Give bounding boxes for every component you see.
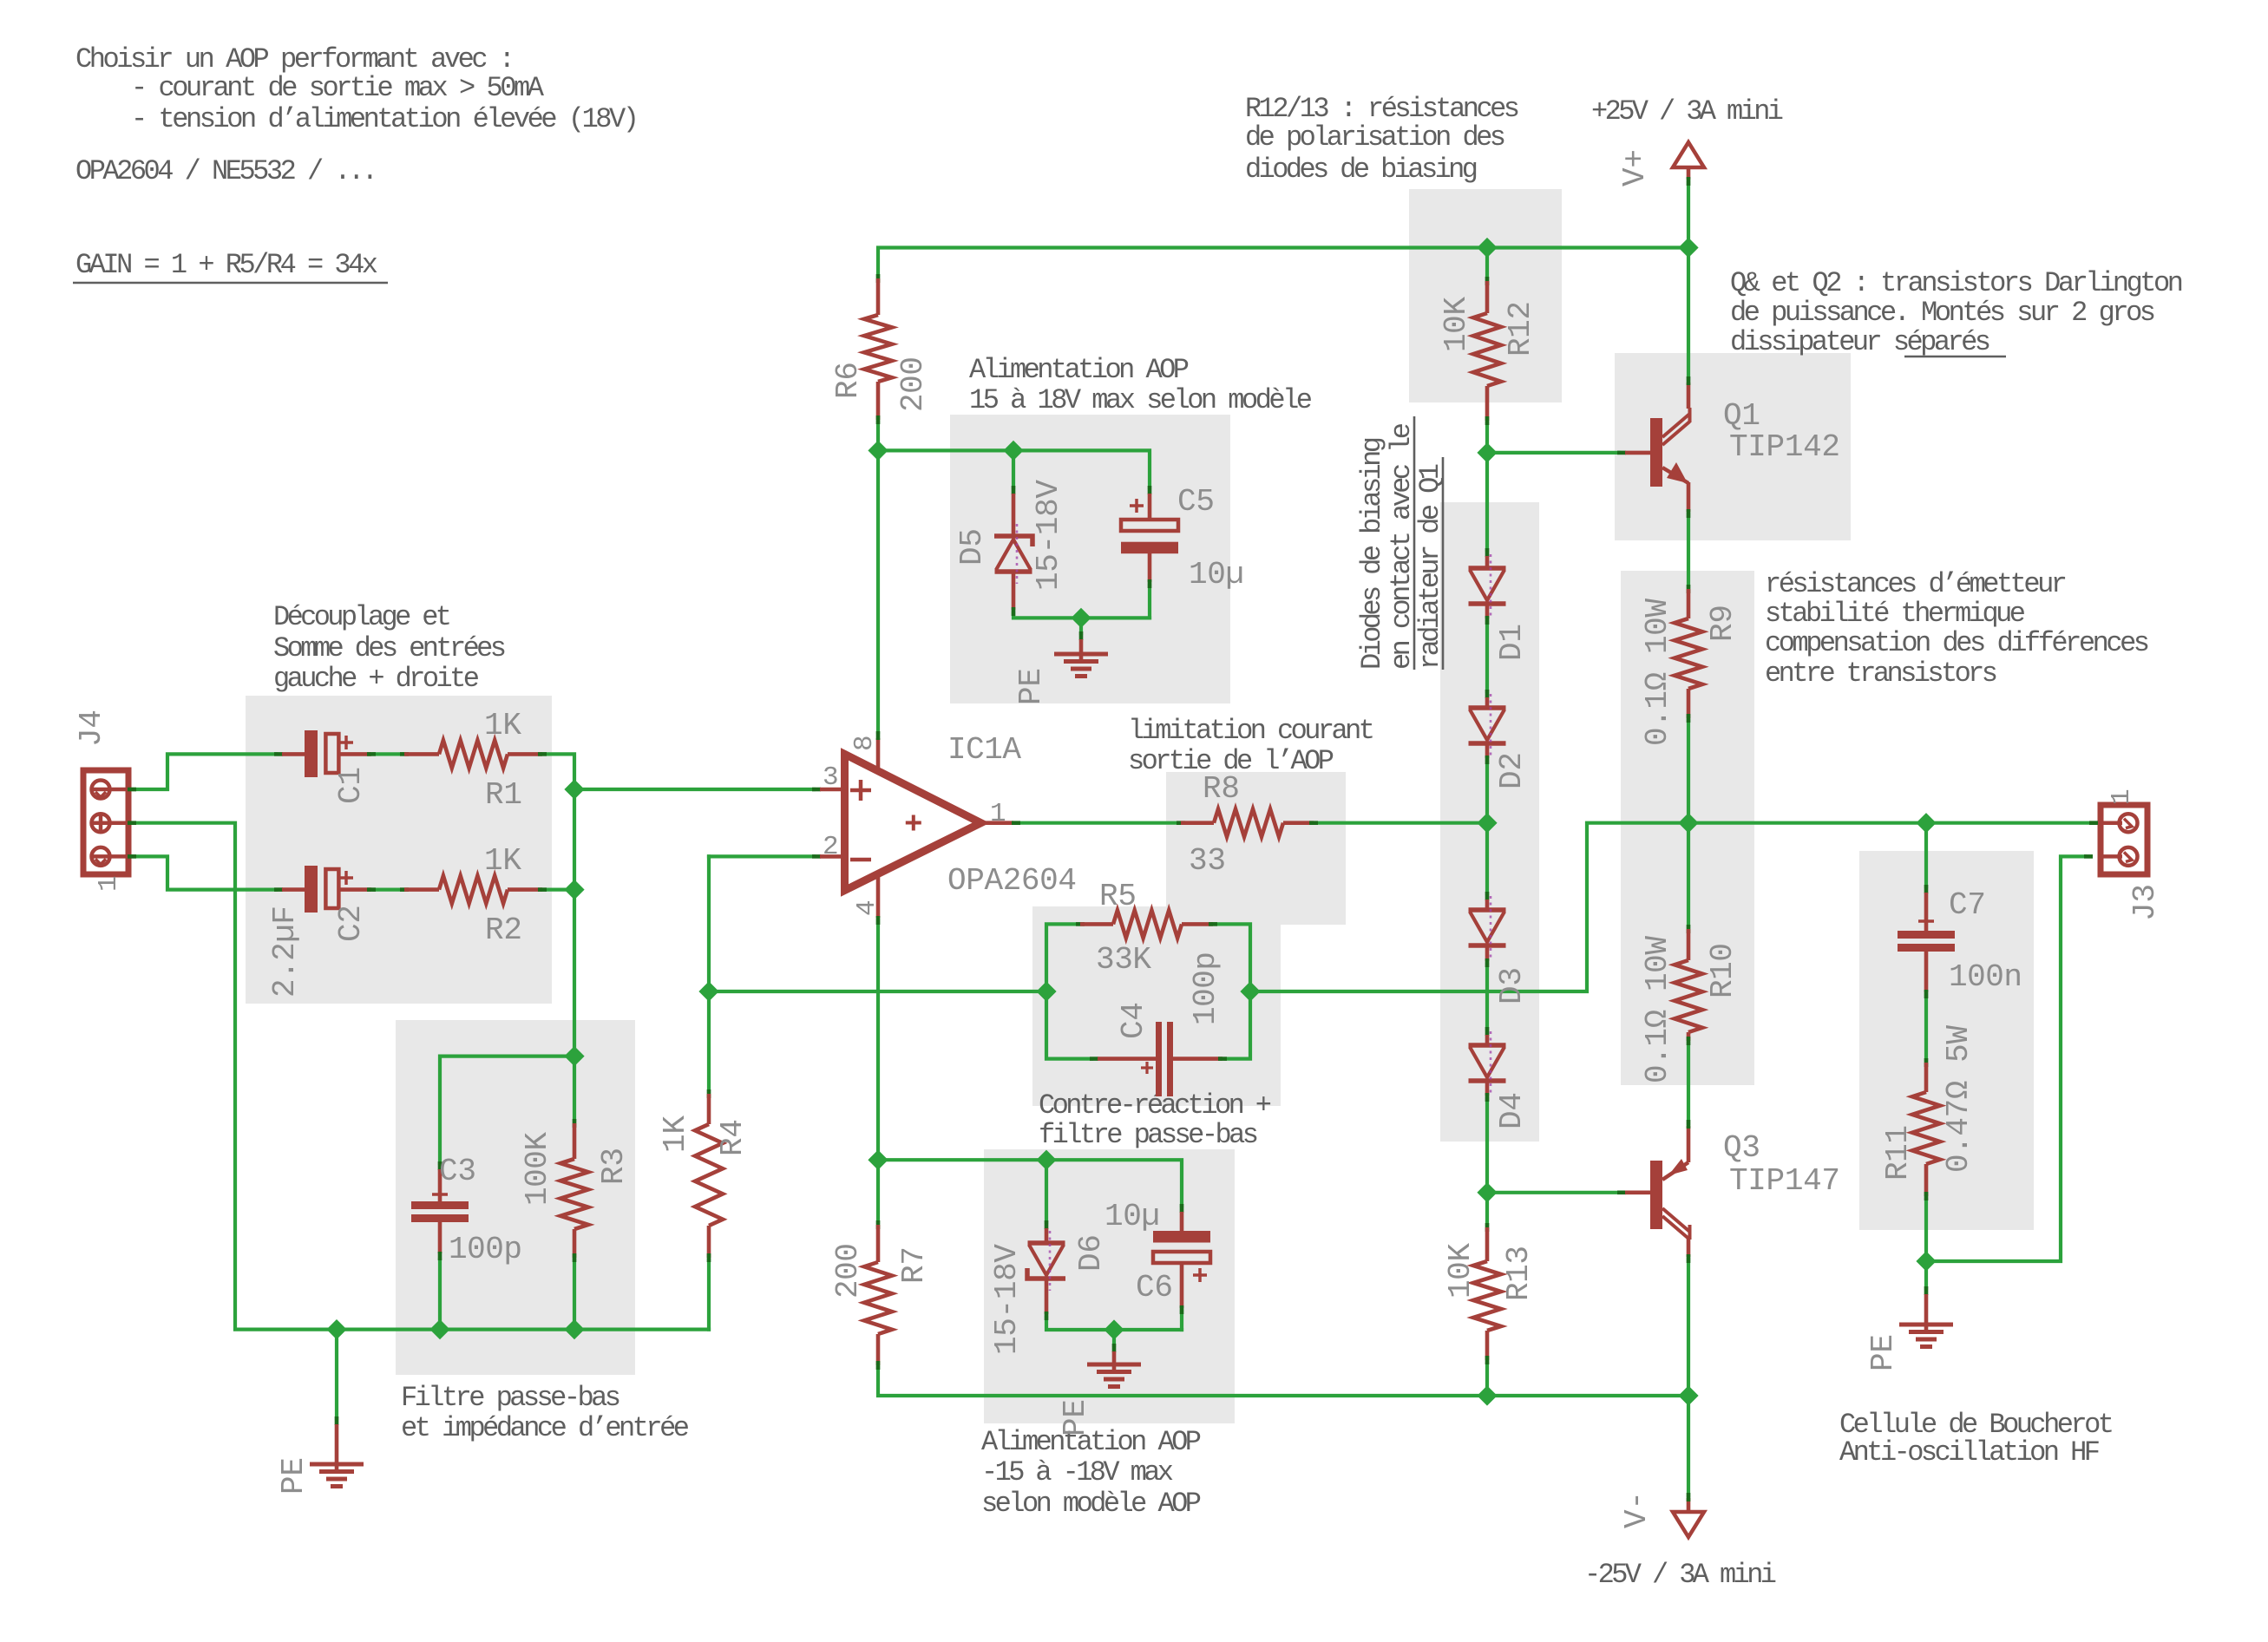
svg-text:R13: R13: [1501, 1246, 1537, 1301]
svg-text:Filtre passe-bas: Filtre passe-bas: [401, 1382, 621, 1414]
wire R2 to node IN: [542, 887, 574, 891]
resistor R2 1K: [400, 843, 547, 948]
svg-text:dissipateur séparés: dissipateur séparés: [1730, 326, 1991, 358]
resistor R12 10K: [1439, 277, 1538, 425]
svg-text:R3: R3: [596, 1148, 632, 1185]
wire to PE supply-: [1112, 1330, 1116, 1345]
svg-text:10K: 10K: [1439, 297, 1474, 352]
svg-text:GAIN = 1 + R5/R4 = 34x: GAIN = 1 + R5/R4 = 34x: [75, 249, 378, 281]
diode D1: [1469, 548, 1531, 661]
resistor R4 1K: [658, 1089, 751, 1262]
resistor R3 100K: [520, 1119, 632, 1262]
wire rail to V-: [1687, 1396, 1690, 1495]
svg-text:Choisir un AOP performant avec: Choisir un AOP performant avec :: [75, 43, 515, 75]
resistor R6 200: [830, 274, 931, 424]
svg-text:100p: 100p: [1188, 952, 1223, 1025]
wire R13 to bottom rail: [1485, 1364, 1489, 1396]
capacitor C1 2.2uF: [274, 730, 376, 804]
svg-text:D4: D4: [1494, 1092, 1530, 1129]
capacitor C2 2.2uF: [267, 866, 376, 998]
svg-text:0.1Ω 10W: 0.1Ω 10W: [1640, 599, 1675, 746]
wire node IN to filter: [573, 890, 576, 1057]
wire D1 to D2: [1485, 622, 1489, 691]
junction: [1106, 1322, 1123, 1338]
wire D3 to D4: [1485, 965, 1489, 1029]
wire C2 to R2: [374, 887, 404, 891]
ground PE (negative supply): [1058, 1344, 1141, 1436]
resistor R8 33: [1177, 771, 1318, 879]
svg-text:D5: D5: [954, 528, 990, 566]
wire C5 bottom: [1148, 585, 1151, 618]
svg-text:1K: 1K: [484, 708, 521, 743]
svg-text:33: 33: [1189, 843, 1226, 879]
svg-text:de puissance. Montés sur 2 gro: de puissance. Montés sur 2 gros: [1730, 297, 2156, 329]
wire output to C7: [1924, 823, 1928, 886]
svg-text:TIP147: TIP147: [1729, 1163, 1840, 1199]
svg-text:R2: R2: [485, 913, 522, 948]
note: decouplage: [273, 601, 507, 695]
capacitor C3 100p: [411, 1154, 522, 1267]
wire R5 right: [1213, 924, 1250, 991]
junction: [1479, 239, 1496, 256]
svg-text:Q1: Q1: [1723, 398, 1760, 434]
note: cellule de Boucherot: [1839, 1409, 2114, 1469]
wire V+ top rail: [878, 248, 1688, 277]
wire J4-2 ground rail: [133, 823, 709, 1330]
wire R12 to bias node: [1485, 423, 1489, 453]
wire to C3: [440, 1057, 574, 1163]
svg-text:200: 200: [895, 357, 931, 412]
svg-text:0.47Ω 5W: 0.47Ω 5W: [1941, 1025, 1976, 1173]
connector J4: [74, 710, 136, 892]
ground PE (output): [1865, 1286, 1953, 1371]
svg-text:D2: D2: [1494, 752, 1530, 789]
svg-text:Alimentation AOP: Alimentation AOP: [969, 354, 1190, 386]
svg-text:R9: R9: [1705, 605, 1740, 642]
junction: [329, 1321, 345, 1338]
svg-text:15-18V: 15-18V: [989, 1244, 1025, 1355]
junction: [701, 984, 718, 1000]
svg-text:PE: PE: [1058, 1399, 1093, 1436]
capacitor C4 100p: [1090, 952, 1227, 1096]
svg-text:R10: R10: [1705, 943, 1740, 998]
svg-text:-15 à -18V max: -15 à -18V max: [981, 1456, 1174, 1488]
svg-text:PE: PE: [1013, 668, 1049, 705]
svg-text:résistances d’émetteur: résistances d’émetteur: [1765, 568, 2068, 600]
wire mid node to D3: [1485, 823, 1489, 893]
svg-text:R11: R11: [1880, 1125, 1916, 1181]
svg-text:R7: R7: [896, 1246, 932, 1284]
svg-text:Q3: Q3: [1723, 1130, 1760, 1166]
junction: [870, 442, 887, 459]
wire pin8 to supply+: [876, 450, 880, 732]
svg-text:-25V / 3A mini: -25V / 3A mini: [1584, 1559, 1777, 1591]
wire node IN to pin3: [574, 788, 814, 791]
svg-text:de polarisation des: de polarisation des: [1245, 121, 1506, 154]
wire output node to R10: [1687, 823, 1690, 926]
junction: [567, 782, 583, 798]
wire R4 to ground: [707, 1260, 711, 1330]
resistor R1 1K: [400, 708, 547, 813]
wire pin4 to supply-: [876, 920, 880, 1160]
wire R3 to ground: [573, 1260, 576, 1330]
svg-text:C4: C4: [1116, 1002, 1151, 1039]
svg-text:gauche + droite: gauche + droite: [273, 663, 480, 695]
op-amp IC1A OPA2604: [812, 731, 1077, 925]
svg-text:8: 8: [849, 735, 880, 751]
wire return to PE: [1924, 1261, 1928, 1288]
svg-text:1: 1: [990, 799, 1006, 829]
svg-text:R12/13 : résistances: R12/13 : résistances: [1245, 93, 1520, 125]
resistor R11 0.47ohm: [1880, 1025, 1976, 1200]
wire R6 bottom: [876, 422, 880, 450]
wire to R5 left: [1046, 924, 1080, 991]
svg-text:15 à 18V max selon modèle: 15 à 18V max selon modèle: [969, 384, 1313, 416]
wire V- bottom rail: [878, 1368, 1688, 1396]
wire to D5: [1012, 450, 1015, 487]
svg-text:Q& et Q2 : transistors Darling: Q& et Q2 : transistors Darlington: [1730, 267, 2184, 299]
svg-text:D3: D3: [1494, 967, 1530, 1004]
note: diodes de biasing (vertical): [1356, 416, 1446, 670]
svg-text:+25V / 3A mini: +25V / 3A mini: [1591, 95, 1784, 128]
svg-text:compensation des différences: compensation des différences: [1765, 627, 2150, 659]
svg-text:- courant de sortie max > 50mA: - courant de sortie max > 50mA: [131, 72, 545, 104]
wire bias2 to Q3 base: [1487, 1191, 1619, 1194]
svg-text:Découplage et: Découplage et: [273, 601, 452, 633]
svg-text:R6: R6: [830, 362, 866, 399]
junction: [1006, 442, 1022, 459]
wire rail to R12: [1485, 248, 1489, 279]
junction: [1918, 1253, 1935, 1270]
svg-text:R1: R1: [485, 777, 522, 813]
svg-text:4: 4: [852, 900, 882, 916]
connector J3: [2084, 788, 2163, 921]
svg-text:33K: 33K: [1096, 942, 1151, 978]
zener diode D5 15-18V: [954, 480, 1066, 616]
svg-text:diodes de biasing: diodes de biasing: [1245, 154, 1478, 186]
wire D5 C5 bottom: [1013, 613, 1150, 618]
note: Q1 Q2 darlington: [1730, 267, 2184, 358]
svg-text:C2: C2: [333, 905, 369, 942]
resistor R10 0.1ohm: [1640, 925, 1740, 1083]
svg-text:Contre-réaction +: Contre-réaction +: [1039, 1089, 1272, 1122]
wire FB to output node: [1250, 823, 1688, 991]
transistor Q3 TIP147: [1617, 1120, 1840, 1263]
wire J4-3 to C2: [133, 856, 276, 889]
svg-text:C5: C5: [1177, 484, 1215, 520]
svg-text:100K: 100K: [520, 1132, 555, 1206]
svg-text:filtre passe-bas: filtre passe-bas: [1039, 1119, 1259, 1151]
wire Q1 emitter to R9: [1687, 514, 1690, 586]
junction: [567, 1048, 583, 1064]
wire C7 to R11: [1924, 995, 1928, 1060]
wire to C4 left: [1046, 991, 1091, 1059]
wire pin1 to R8: [1019, 821, 1175, 825]
junction: [1242, 984, 1259, 1000]
wire C1 to R1: [374, 752, 404, 756]
svg-text:10µ: 10µ: [1105, 1199, 1160, 1234]
note: alimentation AOP +: [969, 354, 1313, 416]
diode D4: [1469, 1027, 1531, 1129]
svg-text:200: 200: [830, 1243, 866, 1299]
wire ground to PE: [335, 1330, 338, 1418]
wire R8 to diode chain: [1316, 821, 1487, 825]
wire D6 C6 bottom: [1046, 1318, 1182, 1330]
wire R10 to Q3 emitter: [1687, 1043, 1690, 1123]
svg-text:V+: V+: [1617, 149, 1653, 186]
resistor R5 33K: [1076, 879, 1217, 978]
svg-text:2.2µF: 2.2µF: [267, 906, 303, 998]
junction: [1681, 814, 1697, 831]
resistor R9 0.1ohm: [1640, 585, 1740, 746]
wire R9 to output node: [1687, 721, 1690, 823]
svg-text:en contact avec le: en contact avec le: [1386, 422, 1418, 670]
svg-text:100p: 100p: [449, 1232, 522, 1267]
wire rail to Q1 collector: [1687, 248, 1690, 379]
svg-text:1K: 1K: [484, 843, 521, 879]
svg-text:TIP142: TIP142: [1729, 429, 1840, 465]
wire D2 to mid node: [1485, 762, 1489, 823]
junction: [870, 1152, 887, 1168]
svg-text:R4: R4: [715, 1119, 751, 1156]
wire supply+ to D5 C5: [878, 450, 1150, 487]
wire to R3: [573, 1057, 576, 1121]
svg-text:1K: 1K: [658, 1115, 693, 1153]
wire pin2 feedback node: [709, 854, 814, 858]
note: limitation courant: [1128, 715, 1375, 777]
junction: [567, 1321, 583, 1338]
resistor R13 10K: [1443, 1223, 1537, 1364]
supply symbol V+: [1617, 142, 1704, 186]
svg-text:et impédance d’entrée: et impédance d’entrée: [401, 1412, 690, 1444]
svg-text:selon modèle AOP: selon modèle AOP: [981, 1488, 1202, 1520]
wire to D6: [1045, 1160, 1048, 1222]
supply symbol V-: [1619, 1491, 1704, 1537]
svg-text:IC1A: IC1A: [947, 732, 1021, 768]
svg-text:OPA2604 / NE5532 / ...: OPA2604 / NE5532 / ...: [75, 155, 378, 187]
wire R11 to return node: [1924, 1200, 1928, 1261]
junction: [1479, 444, 1496, 461]
svg-text:C3: C3: [439, 1154, 476, 1189]
svg-text:Diodes de biasing: Diodes de biasing: [1356, 436, 1388, 670]
capacitor C6 10u: [1105, 1199, 1210, 1314]
svg-text:3: 3: [823, 762, 839, 793]
note: choisir un AOP: [75, 43, 639, 187]
wire node IN down: [573, 789, 576, 890]
svg-text:stabilité thermique: stabilité thermique: [1765, 598, 2026, 630]
svg-text:1: 1: [2107, 788, 2137, 805]
wire to R7: [876, 1160, 880, 1222]
svg-text:J4: J4: [74, 710, 109, 747]
svg-text:C1: C1: [333, 767, 369, 804]
junction: [1073, 610, 1090, 626]
wire D4 to bias node 2: [1485, 1099, 1489, 1193]
wire supply- to D6 C6: [878, 1160, 1182, 1206]
svg-text:R5: R5: [1099, 879, 1137, 914]
ground PE (input filter): [276, 1416, 364, 1495]
diode D3: [1469, 892, 1531, 1004]
junction: [432, 1321, 449, 1338]
svg-text:1: 1: [94, 875, 124, 892]
junction: [1681, 239, 1697, 256]
wire output to J3: [1688, 821, 2091, 825]
wire J4-1 to C1: [133, 754, 276, 789]
svg-text:PE: PE: [1865, 1334, 1901, 1371]
junction: [1681, 1388, 1697, 1404]
svg-text:0.1Ω 10W: 0.1Ω 10W: [1640, 936, 1675, 1083]
note: gain formula: [73, 249, 388, 283]
ground PE (positive supply): [1013, 631, 1108, 705]
svg-text:D6: D6: [1073, 1234, 1109, 1272]
junction: [1479, 1184, 1496, 1200]
note: filtre passe-bas: [401, 1382, 690, 1444]
wire bias to Q1 base: [1487, 451, 1619, 455]
junction: [567, 881, 583, 898]
note: R12/13 resistances: [1245, 93, 1520, 186]
svg-text:10µ: 10µ: [1189, 557, 1244, 592]
svg-text:J3: J3: [2127, 884, 2163, 921]
svg-text:- tension d’alimentation élevé: - tension d’alimentation élevée (18V): [131, 103, 639, 135]
svg-text:R8: R8: [1203, 771, 1240, 807]
svg-text:D1: D1: [1494, 624, 1530, 661]
transistor Q1 TIP142: [1617, 376, 1840, 518]
junction: [1039, 984, 1055, 1000]
svg-text:V-: V-: [1619, 1491, 1655, 1528]
svg-text:entre transistors: entre transistors: [1765, 657, 1998, 690]
wire R1 to node IN: [542, 754, 574, 789]
svg-text:100n: 100n: [1949, 959, 2022, 995]
note: contre-reaction: [1039, 1089, 1272, 1151]
wire node FB to R4: [707, 856, 711, 1091]
zener diode D6 15-18V: [989, 1220, 1109, 1355]
capacitor C5 10u: [1121, 484, 1244, 592]
wire to PE supply+: [1079, 618, 1083, 633]
wire Q3 collector to rail: [1687, 1259, 1690, 1396]
svg-text:R12: R12: [1503, 301, 1538, 357]
svg-text:C7: C7: [1949, 887, 1986, 923]
svg-text:15-18V: 15-18V: [1031, 480, 1066, 591]
svg-text:radiateur de Q1: radiateur de Q1: [1414, 463, 1446, 670]
junction: [1479, 814, 1496, 831]
wire C6 bottom: [1180, 1312, 1183, 1330]
note: alimentation AOP -: [981, 1426, 1202, 1520]
svg-text:OPA2604: OPA2604: [947, 863, 1077, 899]
diode D2: [1469, 690, 1531, 789]
svg-text:Somme des entrées: Somme des entrées: [273, 632, 507, 664]
svg-text:C6: C6: [1136, 1270, 1173, 1305]
junction: [1479, 1388, 1496, 1404]
svg-text:10K: 10K: [1443, 1243, 1478, 1299]
wire C4 right: [1225, 991, 1250, 1059]
wire J3 return: [1926, 856, 2085, 1261]
svg-text:limitation courant: limitation courant: [1128, 715, 1375, 747]
capacitor C7 100n: [1898, 885, 2022, 998]
svg-text:2: 2: [823, 832, 839, 862]
junction: [1039, 1152, 1055, 1168]
svg-text:PE: PE: [276, 1457, 311, 1495]
wire to R13: [1485, 1193, 1489, 1225]
note: resistances emetteur: [1765, 568, 2150, 690]
wire V+ symbol: [1687, 182, 1690, 248]
resistor R7 200: [830, 1220, 932, 1370]
wire FB to R5/C4: [709, 990, 1046, 993]
wire C3 to ground: [438, 1259, 442, 1330]
junction: [1918, 814, 1935, 831]
svg-text:Anti-oscillation HF: Anti-oscillation HF: [1839, 1436, 2101, 1469]
wire to D1: [1485, 453, 1489, 550]
